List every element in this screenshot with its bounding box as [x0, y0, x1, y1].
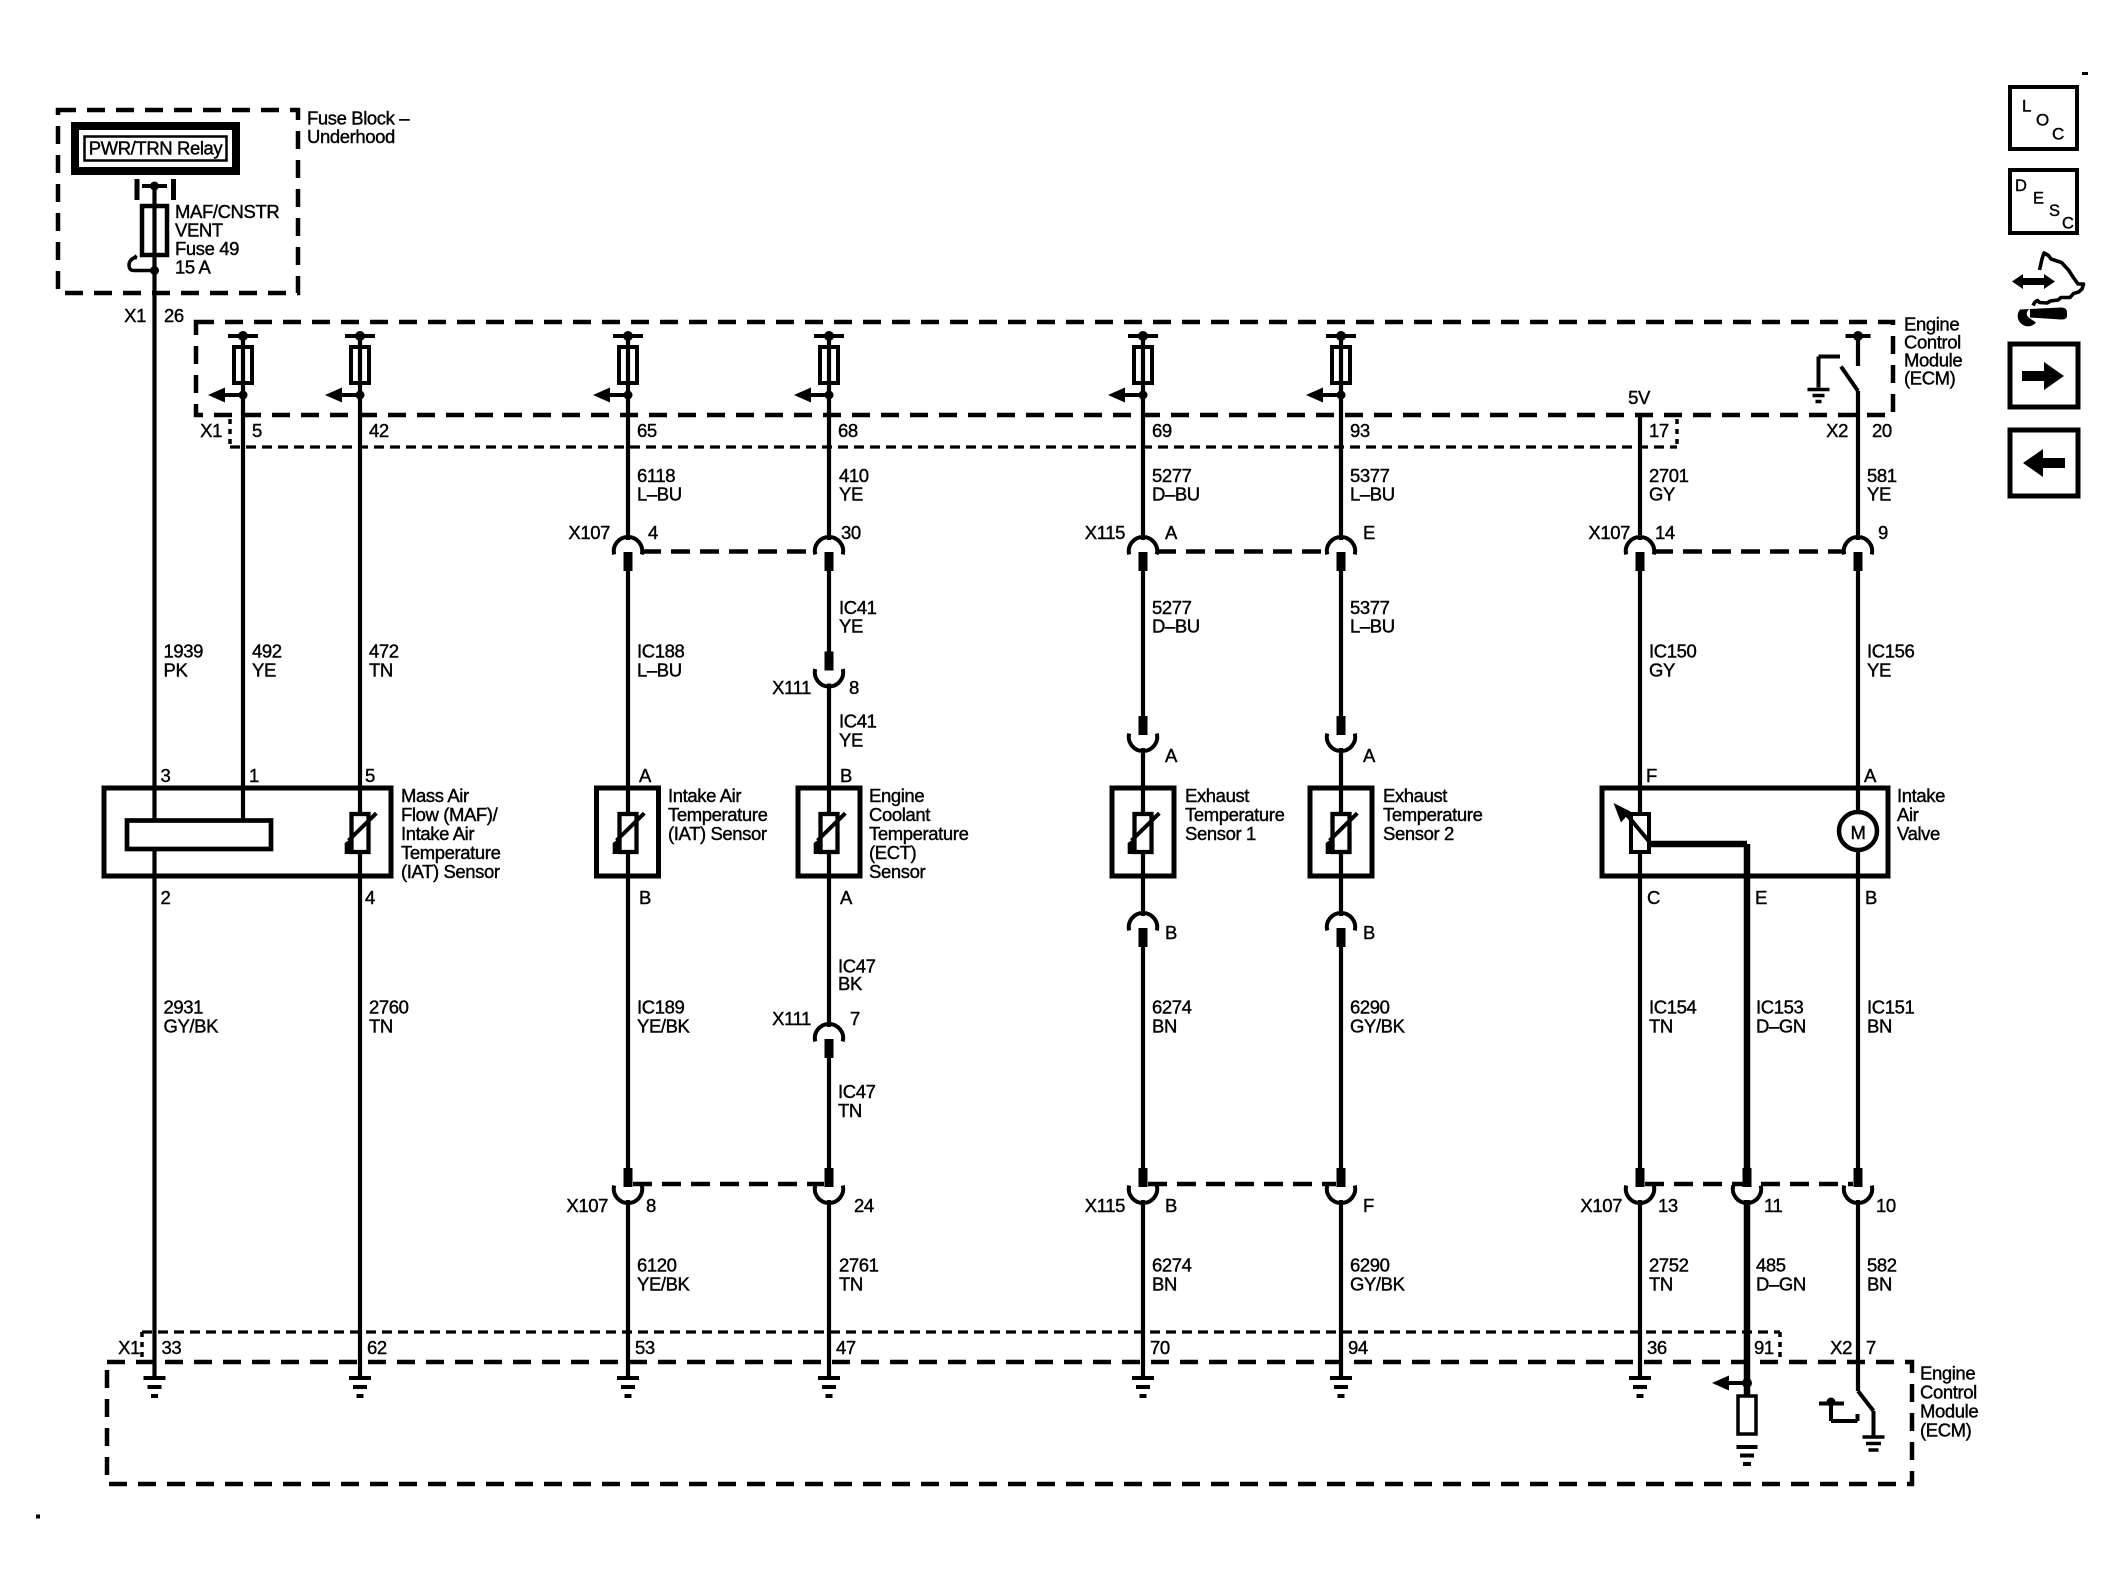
svg-text:2931: 2931 — [164, 997, 204, 1018]
svg-text:TN: TN — [369, 1016, 393, 1037]
svg-text:IC150: IC150 — [1649, 641, 1696, 662]
svg-text:3: 3 — [161, 765, 171, 786]
svg-text:Module: Module — [1920, 1401, 1978, 1422]
svg-text:B: B — [1165, 1195, 1177, 1216]
svg-text:L–BU: L–BU — [637, 660, 682, 681]
svg-text:YE/BK: YE/BK — [637, 1274, 691, 1295]
svg-text:YE: YE — [1867, 660, 1891, 681]
svg-text:5: 5 — [252, 420, 262, 441]
svg-text:10: 10 — [1876, 1195, 1896, 1216]
svg-text:IC47: IC47 — [838, 1081, 876, 1102]
svg-text:D: D — [2015, 177, 2027, 195]
svg-text:B: B — [1865, 887, 1877, 908]
svg-text:Intake Air: Intake Air — [668, 785, 741, 806]
svg-text:E: E — [1363, 522, 1375, 543]
svg-text:BN: BN — [1152, 1016, 1177, 1037]
svg-text:YE: YE — [252, 660, 276, 681]
svg-text:Valve: Valve — [1897, 823, 1940, 844]
svg-text:Temperature: Temperature — [401, 842, 501, 863]
svg-text:B: B — [1363, 922, 1375, 943]
svg-text:Sensor 2: Sensor 2 — [1383, 823, 1454, 844]
svg-text:C: C — [2062, 215, 2074, 233]
svg-text:7: 7 — [850, 1008, 860, 1029]
svg-text:YE: YE — [839, 616, 863, 637]
svg-text:(IAT) Sensor: (IAT) Sensor — [668, 823, 767, 844]
svg-text:Flow (MAF)/: Flow (MAF)/ — [401, 804, 499, 825]
svg-text:582: 582 — [1867, 1255, 1897, 1276]
svg-text:33: 33 — [162, 1337, 182, 1358]
svg-text:20: 20 — [1872, 420, 1892, 441]
svg-text:4: 4 — [648, 522, 658, 543]
svg-text:D–BU: D–BU — [1152, 616, 1200, 637]
svg-text:5: 5 — [365, 765, 375, 786]
svg-text:X111: X111 — [772, 677, 811, 698]
svg-text:8: 8 — [646, 1195, 656, 1216]
svg-text:A: A — [1165, 522, 1178, 543]
svg-text:47: 47 — [836, 1337, 856, 1358]
svg-text:PK: PK — [164, 660, 189, 681]
svg-text:TN: TN — [839, 1274, 863, 1295]
svg-text:YE/BK: YE/BK — [637, 1016, 691, 1037]
svg-text:Underhood: Underhood — [307, 126, 395, 147]
svg-text:Exhaust: Exhaust — [1383, 785, 1447, 806]
svg-text:11: 11 — [1764, 1195, 1783, 1216]
svg-text:9: 9 — [1878, 522, 1888, 543]
svg-text:6274: 6274 — [1152, 997, 1192, 1018]
svg-text:Intake Air: Intake Air — [401, 823, 474, 844]
svg-text:GY/BK: GY/BK — [1350, 1016, 1406, 1037]
svg-text:PWR/TRN Relay: PWR/TRN Relay — [89, 138, 224, 159]
svg-text:X111: X111 — [772, 1008, 811, 1029]
svg-text:X1: X1 — [118, 1337, 140, 1358]
svg-text:2760: 2760 — [369, 997, 409, 1018]
svg-text:91: 91 — [1754, 1337, 1774, 1358]
svg-text:L–BU: L–BU — [1350, 616, 1395, 637]
svg-text:(ECM): (ECM) — [1920, 1420, 1972, 1441]
svg-text:36: 36 — [1647, 1337, 1667, 1358]
svg-text:Control: Control — [1920, 1382, 1977, 1403]
svg-text:E: E — [2033, 190, 2044, 208]
svg-text:Coolant: Coolant — [869, 804, 930, 825]
svg-text:1939: 1939 — [164, 641, 204, 662]
svg-text:Exhaust: Exhaust — [1185, 785, 1249, 806]
svg-text:YE: YE — [839, 730, 863, 751]
svg-text:M: M — [1850, 822, 1865, 843]
svg-text:15 A: 15 A — [175, 257, 211, 278]
svg-text:L: L — [2022, 97, 2031, 116]
svg-text:BN: BN — [1152, 1274, 1177, 1295]
svg-text:42: 42 — [369, 420, 389, 441]
svg-text:Engine: Engine — [869, 785, 924, 806]
svg-text:(ECM): (ECM) — [1904, 368, 1956, 389]
svg-text:A: A — [1864, 765, 1877, 786]
svg-text:4: 4 — [365, 887, 375, 908]
svg-text:A: A — [840, 887, 853, 908]
svg-text:62: 62 — [367, 1337, 387, 1358]
svg-text:Temperature: Temperature — [1185, 804, 1285, 825]
svg-text:IC151: IC151 — [1867, 997, 1914, 1018]
svg-text:L–BU: L–BU — [1350, 484, 1395, 505]
svg-text:94: 94 — [1348, 1337, 1368, 1358]
svg-text:A: A — [1165, 745, 1178, 766]
svg-text:TN: TN — [1649, 1016, 1673, 1037]
svg-text:Temperature: Temperature — [668, 804, 768, 825]
svg-text:B: B — [840, 765, 852, 786]
svg-text:X2: X2 — [1826, 420, 1848, 441]
svg-text:F: F — [1363, 1195, 1374, 1216]
svg-text:C: C — [1647, 887, 1660, 908]
svg-text:8: 8 — [849, 677, 859, 698]
svg-text:X107: X107 — [568, 522, 610, 543]
svg-text:65: 65 — [637, 420, 657, 441]
svg-text:X115: X115 — [1085, 1195, 1125, 1216]
svg-text:BN: BN — [1867, 1274, 1892, 1295]
svg-text:X1: X1 — [124, 305, 146, 326]
svg-text:24: 24 — [854, 1195, 874, 1216]
svg-text:17: 17 — [1649, 420, 1669, 441]
svg-text:69: 69 — [1152, 420, 1172, 441]
svg-text:TN: TN — [838, 1100, 862, 1121]
svg-text:GY/BK: GY/BK — [164, 1016, 220, 1037]
svg-text:(ECT): (ECT) — [869, 842, 917, 863]
svg-text:C: C — [2052, 125, 2064, 144]
svg-text:IC188: IC188 — [637, 641, 684, 662]
svg-text:IC154: IC154 — [1649, 997, 1696, 1018]
svg-text:E: E — [1755, 887, 1767, 908]
svg-text:F: F — [1646, 765, 1657, 786]
svg-text:485: 485 — [1756, 1255, 1786, 1276]
svg-text:93: 93 — [1350, 420, 1370, 441]
svg-text:13: 13 — [1658, 1195, 1678, 1216]
svg-text:IC156: IC156 — [1867, 641, 1914, 662]
svg-text:Intake: Intake — [1897, 785, 1945, 806]
svg-text:A: A — [639, 765, 652, 786]
svg-text:Engine: Engine — [1920, 1363, 1975, 1384]
svg-text:D–BU: D–BU — [1152, 484, 1200, 505]
svg-text:GY/BK: GY/BK — [1350, 1274, 1406, 1295]
svg-text:492: 492 — [252, 641, 282, 662]
svg-text:2761: 2761 — [839, 1255, 879, 1276]
svg-text:472: 472 — [369, 641, 399, 662]
svg-text:6290: 6290 — [1350, 997, 1390, 1018]
svg-text:Air: Air — [1897, 804, 1919, 825]
svg-text:L–BU: L–BU — [637, 484, 682, 505]
svg-text:B: B — [1165, 922, 1177, 943]
svg-text:O: O — [2036, 111, 2049, 130]
svg-text:7: 7 — [1866, 1337, 1876, 1358]
svg-text:2752: 2752 — [1649, 1255, 1689, 1276]
svg-text:YE: YE — [1867, 484, 1891, 505]
svg-text:Temperature: Temperature — [1383, 804, 1483, 825]
svg-text:TN: TN — [369, 660, 393, 681]
svg-text:TN: TN — [1649, 1274, 1673, 1295]
svg-text:6274: 6274 — [1152, 1255, 1192, 1276]
svg-text:X115: X115 — [1085, 522, 1125, 543]
svg-text:6120: 6120 — [637, 1255, 677, 1276]
svg-text:X107: X107 — [1588, 522, 1630, 543]
svg-text:26: 26 — [164, 305, 184, 326]
svg-text:D–GN: D–GN — [1756, 1016, 1806, 1037]
svg-text:70: 70 — [1150, 1337, 1170, 1358]
svg-text:B: B — [639, 887, 651, 908]
svg-text:X107: X107 — [1580, 1195, 1622, 1216]
svg-text:YE: YE — [839, 484, 863, 505]
svg-text:IC189: IC189 — [637, 997, 684, 1018]
svg-text:14: 14 — [1655, 522, 1675, 543]
svg-text:Mass Air: Mass Air — [401, 785, 469, 806]
svg-text:D–GN: D–GN — [1756, 1274, 1806, 1295]
svg-text:IC153: IC153 — [1756, 997, 1803, 1018]
svg-text:BN: BN — [1867, 1016, 1892, 1037]
svg-text:IC41: IC41 — [839, 711, 877, 732]
svg-text:Sensor: Sensor — [869, 861, 925, 882]
svg-text:6290: 6290 — [1350, 1255, 1390, 1276]
svg-text:X1: X1 — [200, 420, 222, 441]
svg-text:30: 30 — [841, 522, 861, 543]
svg-text:GY: GY — [1649, 484, 1675, 505]
svg-text:X107: X107 — [566, 1195, 608, 1216]
svg-text:BK: BK — [838, 973, 863, 994]
svg-text:Sensor 1: Sensor 1 — [1185, 823, 1256, 844]
svg-text:A: A — [1363, 745, 1376, 766]
svg-text:68: 68 — [838, 420, 858, 441]
svg-text:GY: GY — [1649, 660, 1675, 681]
svg-text:5V: 5V — [1628, 387, 1651, 408]
svg-text:2: 2 — [161, 887, 171, 908]
svg-text:X2: X2 — [1830, 1337, 1852, 1358]
svg-text:1: 1 — [249, 765, 259, 786]
svg-text:Temperature: Temperature — [869, 823, 969, 844]
svg-text:(IAT) Sensor: (IAT) Sensor — [401, 861, 500, 882]
svg-text:S: S — [2049, 202, 2060, 220]
svg-text:53: 53 — [635, 1337, 655, 1358]
